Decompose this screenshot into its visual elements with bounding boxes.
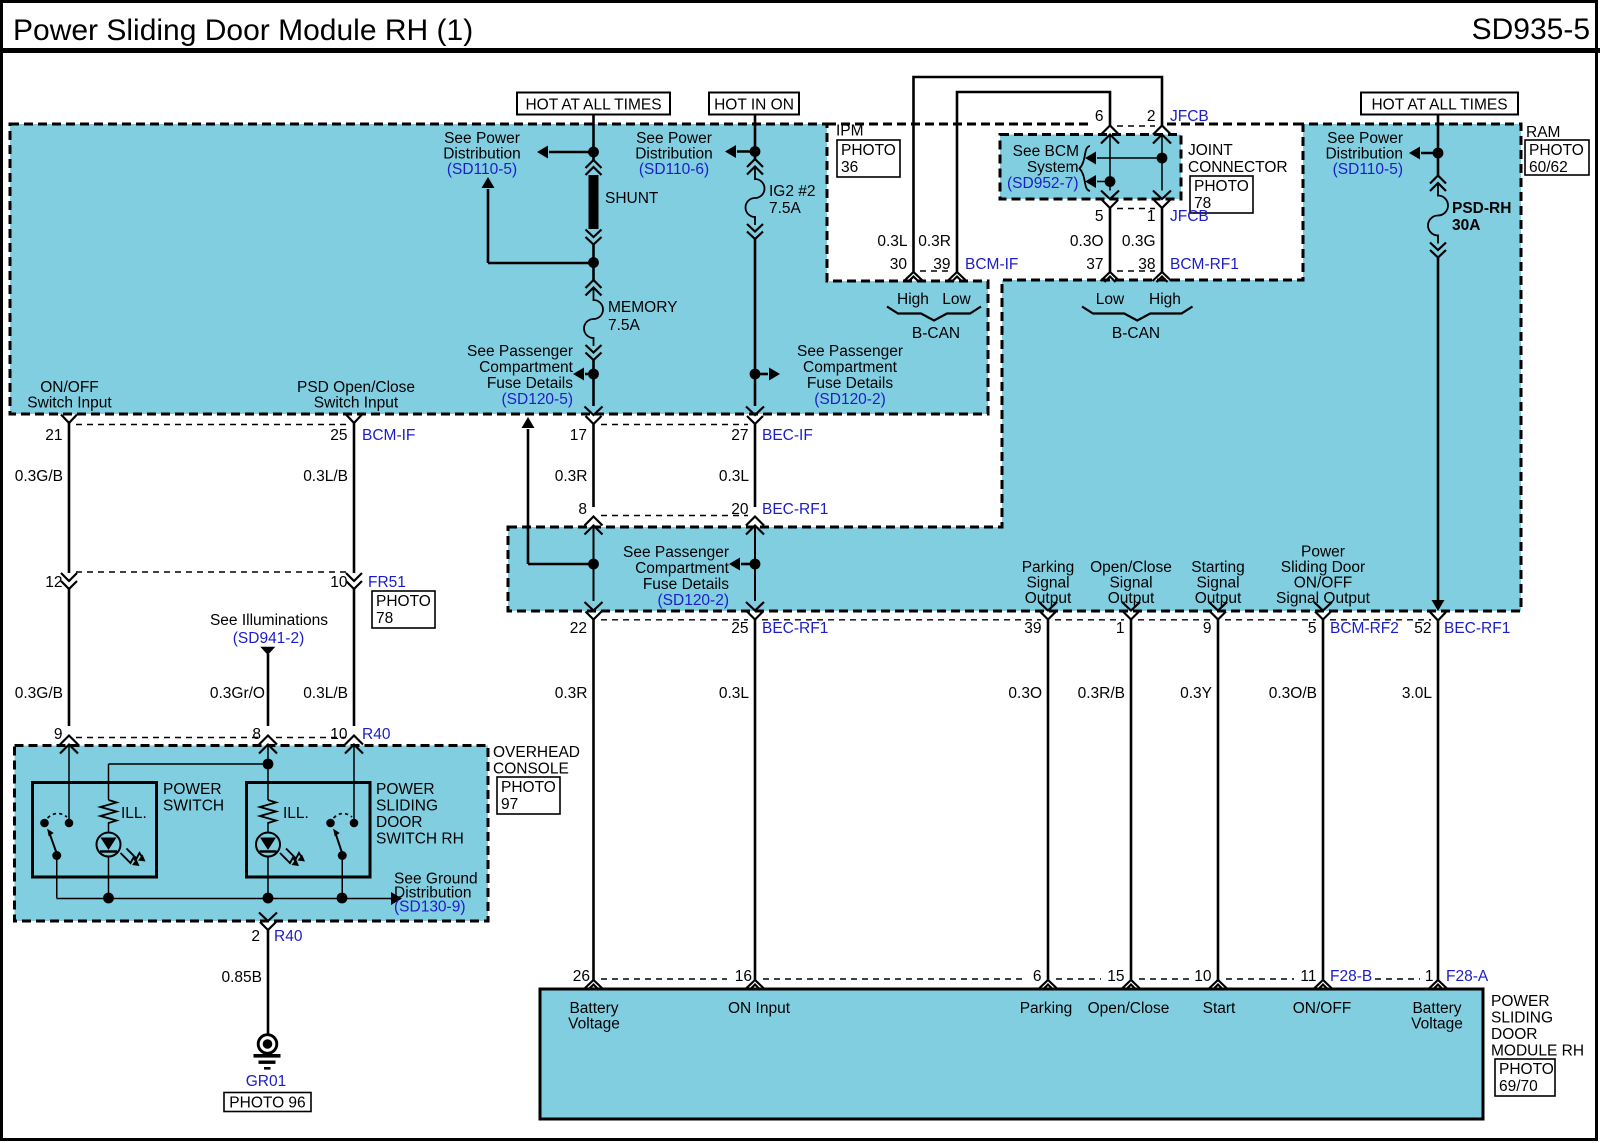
wire 0.3L pin25 to module pin16 [754,620,757,981]
illumination feed triangle [260,647,275,655]
svg-text:27: 27 [731,427,748,444]
node junction SD120-5 tap [588,369,599,380]
svg-text:52: 52 [1414,620,1431,637]
svg-text:37: 37 [1086,256,1103,273]
svg-text:Output: Output [1025,590,1072,607]
svg-text:CONNECTOR: CONNECTOR [1188,159,1288,176]
svg-text:See Passenger: See Passenger [797,343,903,360]
svg-text:15: 15 [1107,968,1124,985]
svg-text:69/70: 69/70 [1499,1078,1538,1095]
wire ignition feed HOT IN ON [754,115,757,160]
shunt element [586,160,602,168]
svg-text:0.3L: 0.3L [719,468,750,485]
svg-text:CONSOLE: CONSOLE [493,761,569,778]
wire pin 1 to module pin 15 [1130,620,1133,981]
node junction JC lower [1105,176,1116,187]
svg-text:8: 8 [252,726,261,743]
pin 20 BEC-RF1 [746,517,764,526]
overhead console box [15,746,489,922]
svg-text:Signal: Signal [1196,575,1239,592]
pin 26 module battery voltage [584,980,603,989]
fuse IG2 #2 7.5A [747,159,763,167]
svg-text:(SD120-2): (SD120-2) [814,391,886,408]
connector dashed line BEC-IF row [601,424,748,426]
brace see BCM system [1080,146,1091,191]
svg-text:78: 78 [376,610,393,627]
connector dashed line BEC-RF1 row upper [601,515,748,517]
pin 39 signal output [1039,602,1057,611]
wire arrowhead into module edge [1432,600,1445,611]
svg-text:9: 9 [54,726,63,743]
pin 25 BEC-RF1 lower [746,602,764,611]
connector dashed line BEC-RF1 row lower [601,619,748,621]
svg-text:BCM-IF: BCM-IF [965,256,1018,273]
svg-text:BEC-RF1: BEC-RF1 [1444,620,1510,637]
svg-text:39: 39 [1024,620,1041,637]
wire 0.3R pin17 to pin8 [592,424,595,507]
svg-text:SLIDING: SLIDING [376,798,438,815]
svg-text:Low: Low [1096,291,1125,308]
svg-text:B-CAN: B-CAN [912,325,960,342]
svg-text:1: 1 [1116,620,1125,637]
wire arrow pointing up to SD110-5 text [482,177,495,188]
svg-text:0.3Y: 0.3Y [1180,685,1212,702]
photo box IPM PHOTO 36 [837,140,900,177]
svg-text:12: 12 [45,574,62,591]
svg-text:OVERHEAD: OVERHEAD [493,744,580,761]
IPM region top dashed border [827,123,1093,126]
svg-text:High: High [1149,291,1181,308]
svg-text:26: 26 [573,968,590,985]
svg-text:1: 1 [1147,208,1156,225]
LED left illumination lamp [97,833,121,857]
svg-text:9: 9 [1203,620,1212,637]
node BEC/RAM block (right dashed cyan region) [508,124,1521,611]
ground GR01 symbol [258,1035,277,1054]
svg-text:See Power: See Power [1327,130,1403,147]
svg-text:See Power: See Power [444,130,520,147]
connector dashed line JFCB top [1117,125,1155,127]
svg-text:POWER: POWER [163,781,222,798]
svg-text:BEC-IF: BEC-IF [762,427,813,444]
photo box PHOTO 97 [497,777,560,814]
svg-text:Signal Output: Signal Output [1276,590,1371,607]
svg-text:See Power: See Power [636,130,712,147]
wire arrow left to band fuse details text [741,563,755,566]
pin 2 JFCB [1153,126,1171,135]
connector dashed line FR51 row [76,571,347,573]
svg-text:Battery: Battery [569,1000,618,1017]
svg-text:Start: Start [1203,1000,1236,1017]
svg-text:ON Input: ON Input [728,1000,791,1017]
svg-text:ILL.: ILL. [283,805,309,822]
wire 0.3G pin1 to pin38 [1161,208,1164,272]
svg-text:Distribution: Distribution [635,146,713,163]
svg-text:Compartment: Compartment [803,359,898,376]
wire 0.3L/B pin10 to pin10b [353,589,356,726]
wire resistor to LED left [108,822,110,833]
svg-text:Power Sliding Door Module RH (: Power Sliding Door Module RH (1) [13,14,473,47]
svg-text:Voltage: Voltage [568,1016,620,1033]
svg-text:Parking: Parking [1022,559,1075,576]
svg-text:0.3L/B: 0.3L/B [303,685,348,702]
svg-text:3.0L: 3.0L [1402,685,1433,702]
svg-text:PHOTO: PHOTO [1499,1061,1554,1078]
svg-text:PHOTO: PHOTO [841,142,896,159]
svg-text:SWITCH RH: SWITCH RH [376,831,464,848]
svg-text:0.3L: 0.3L [719,685,750,702]
wire 0.3R pin22 to module pin26 [592,620,595,981]
svg-text:Signal: Signal [1026,575,1069,592]
pin 21 BCM-IF switch input [61,415,77,424]
svg-text:10: 10 [330,574,348,591]
switch S2 power sliding door switch [326,819,335,828]
svg-text:JFCB: JFCB [1170,208,1209,225]
svg-text:BCM-IF: BCM-IF [362,427,415,444]
wire battery feed RAM [1437,115,1440,176]
node BCM block (top-left dashed cyan region) [10,124,988,414]
svg-text:Starting: Starting [1191,559,1244,576]
svg-text:8: 8 [578,501,587,518]
svg-text:R40: R40 [362,726,391,743]
svg-text:(SD952-7): (SD952-7) [1007,175,1079,192]
svg-text:25: 25 [731,620,748,637]
svg-text:High: High [897,291,929,308]
svg-text:Output: Output [1195,590,1242,607]
svg-text:PSD-RH: PSD-RH [1452,200,1511,217]
svg-text:Compartment: Compartment [479,359,574,376]
svg-text:PHOTO: PHOTO [1529,142,1584,159]
wire joint connector pin6 internal [1109,135,1111,191]
wire resistor to LED right [267,822,269,833]
connector dashed line BCM-RF1 pins 37 38 [1117,270,1155,272]
svg-text:30: 30 [890,256,908,273]
svg-text:Battery: Battery [1412,1000,1461,1017]
svg-text:System: System [1027,159,1079,176]
wire into band column B [754,526,756,602]
svg-text:F28-B: F28-B [1330,968,1372,985]
svg-text:IG2 #2: IG2 #2 [769,183,816,200]
pin 10 R40 [345,736,363,745]
resistor left ILL [101,800,117,823]
svg-text:HOT AT ALL TIMES: HOT AT ALL TIMES [525,97,661,114]
wire 0.85B to ground [267,930,270,1035]
svg-text:ILL.: ILL. [121,805,147,822]
svg-text:7.5A: 7.5A [769,200,802,217]
wire memory fuse to pin 17 [592,360,595,406]
wire see ground distribution arrow [391,892,402,905]
svg-text:7.5A: 7.5A [608,317,641,334]
svg-text:B-CAN: B-CAN [1112,325,1160,342]
svg-text:0.3G/B: 0.3G/B [15,468,63,485]
connector dashed line R40 row [76,737,260,739]
svg-text:See Passenger: See Passenger [623,544,729,561]
wire pin 9 to module pin 10 [1217,620,1220,981]
wire 0.3L/B pin25 to pin10 [353,423,356,573]
pin 2 R40 ground output [259,913,277,922]
wire pin 39 to module pin 6 [1047,620,1050,981]
svg-text:See BCM: See BCM [1013,143,1079,160]
wire 0.3G/B pin12 to pin9 [68,589,71,726]
svg-text:BEC-RF1: BEC-RF1 [762,620,828,637]
svg-text:5: 5 [1308,620,1317,637]
svg-text:Signal: Signal [1109,575,1152,592]
wire battery feed into SHUNT [592,115,595,161]
svg-text:0.3G/B: 0.3G/B [15,685,63,702]
svg-text:Fuse Details: Fuse Details [643,576,729,593]
svg-text:(SD110-5): (SD110-5) [1333,161,1403,178]
svg-text:POWER: POWER [1491,993,1550,1010]
svg-text:38: 38 [1138,256,1155,273]
svg-text:RAM: RAM [1526,124,1560,141]
pin 8 BEC-RF1 [585,517,603,526]
svg-text:PHOTO: PHOTO [376,593,431,610]
pin 38 BCM-RF1 [1153,272,1172,281]
node junction band left [588,559,599,570]
fuse PSD-RH 30A [1430,176,1446,184]
pin 10 module [1209,980,1228,989]
pin 1 JFCB [1153,191,1171,200]
svg-text:0.3O: 0.3O [1070,233,1104,250]
svg-text:Fuse Details: Fuse Details [807,375,893,392]
connector dashed line BCM-IF pins 30 39 [920,270,951,272]
svg-text:SHUNT: SHUNT [605,190,659,207]
wire arrow to See Power Distribution right [1421,152,1438,155]
wire to See Power Distribution SD110-6 arrow [737,150,755,153]
svg-text:11: 11 [1300,968,1316,985]
svg-text:Output: Output [1108,590,1155,607]
node junction SD120-2 tap [750,369,761,380]
wire arrow JC lower to brace [1097,181,1110,183]
pin 37 BCM-RF1 [1101,272,1120,281]
HOT IN ON box [709,93,799,115]
wire 0.3G/B pin21 to pin12 [68,423,71,573]
pin 1 module battery voltage [1429,980,1448,989]
svg-text:Voltage: Voltage [1411,1016,1463,1033]
pin 52 BEC-RF1 [1430,612,1446,621]
wire pin 5 to module pin 11 [1322,620,1325,981]
svg-text:17: 17 [570,427,587,444]
wire arrow to See Passenger Compartment SD120-2 right [755,373,768,376]
svg-text:(SD120-2): (SD120-2) [658,592,730,609]
pin 39 BCM-IF [948,272,967,281]
pin 11 module [1314,980,1333,989]
wire pin9 to switch S1 [68,745,70,820]
photo box FR51 PHOTO 78 [372,591,435,628]
power switch sub-box [33,783,157,878]
joint connector U1 box [1000,135,1181,200]
pin 27 BEC-IF [746,407,764,416]
svg-text:0.3R: 0.3R [555,468,588,485]
svg-text:See Illuminations: See Illuminations [210,612,328,629]
svg-text:BCM-RF2: BCM-RF2 [1330,620,1399,637]
svg-text:36: 36 [841,159,858,176]
resistor right ILL [260,800,276,823]
wire 0.3Gr/O illumination to pin 8 [267,654,270,726]
svg-text:(SD130-9): (SD130-9) [394,899,466,916]
pin 5 JFCB [1101,191,1119,200]
svg-text:(SD120-5): (SD120-5) [502,391,574,408]
wire PSD-RH fuse to pin 52 [1437,258,1440,601]
pin 9 signal output [1209,602,1227,611]
svg-text:SD935-5: SD935-5 [1472,13,1590,46]
svg-text:Parking: Parking [1020,1000,1073,1017]
svg-text:BCM-RF1: BCM-RF1 [1170,256,1239,273]
svg-text:BEC-RF1: BEC-RF1 [762,501,828,518]
svg-text:Low: Low [942,291,971,308]
pin 30 BCM-IF [904,272,923,281]
svg-text:(SD110-5): (SD110-5) [447,161,517,178]
wire pin8 junction to lamps [267,745,269,801]
svg-text:97: 97 [501,796,518,813]
wire to left illumination lamp [109,763,269,765]
svg-text:Switch Input: Switch Input [314,395,399,412]
svg-text:PHOTO 96: PHOTO 96 [229,1095,305,1112]
svg-text:ON/OFF: ON/OFF [1293,1000,1352,1017]
svg-text:SLIDING: SLIDING [1491,1010,1553,1027]
wire shunt to memory fuse [592,244,595,280]
svg-text:Open/Close: Open/Close [1088,1000,1170,1017]
svg-text:22: 22 [570,620,587,637]
svg-text:MEMORY: MEMORY [608,299,677,316]
svg-text:21: 21 [45,427,62,444]
svg-text:0.3L: 0.3L [877,233,908,250]
svg-text:30A: 30A [1452,217,1480,234]
svg-text:(SD941-2): (SD941-2) [233,630,305,647]
svg-text:ON/OFF: ON/OFF [1294,575,1353,592]
connector pin 12 FR51 [61,573,77,581]
connector dashed line BCM-IF row [76,424,347,426]
svg-text:GR01: GR01 [246,1073,287,1090]
LED right illumination lamp [256,833,280,857]
svg-text:IPM: IPM [836,123,864,140]
svg-text:Open/Close: Open/Close [1090,559,1172,576]
ground rail wire [57,898,393,900]
svg-text:1: 1 [1425,968,1434,985]
photo box JOINT CONNECTOR PHOTO 78 [1190,176,1253,213]
wire 0.3O pin5 to pin37 [1109,208,1112,272]
pin 25 BCM-IF [346,415,362,424]
svg-text:Power: Power [1301,544,1345,561]
svg-text:39: 39 [933,256,950,273]
svg-text:25: 25 [330,427,347,444]
node junction SD110-5 tap [588,147,599,158]
connector dashed line JFCB bottom [1117,208,1155,210]
svg-text:0.3O: 0.3O [1008,685,1042,702]
photo box PHOTO 96 [224,1093,311,1112]
pin 5 signal output [1314,602,1332,611]
svg-text:0.3R: 0.3R [918,233,951,250]
pin 9 R40 [60,736,78,745]
svg-text:HOT AT ALL TIMES: HOT AT ALL TIMES [1371,97,1507,114]
wire arrow to See Passenger Compartment SD120-5 [585,373,594,376]
wire pin10 to switch S2 [353,745,355,820]
brace B-CAN left [887,307,981,321]
svg-text:6: 6 [1033,968,1042,985]
wire B-CAN bus lower crossover [957,92,1110,272]
svg-text:Distribution: Distribution [1325,146,1403,163]
svg-text:Distribution: Distribution [443,146,521,163]
svg-text:6: 6 [1095,108,1104,125]
svg-text:60/62: 60/62 [1529,159,1568,176]
svg-text:Switch Input: Switch Input [27,395,112,412]
pin 22 BEC-RF1 [585,602,603,611]
svg-text:Sliding Door: Sliding Door [1281,559,1365,576]
svg-text:POWER: POWER [376,781,435,798]
svg-text:0.3R/B: 0.3R/B [1078,685,1125,702]
HOT AT ALL TIMES box right [1361,93,1518,115]
svg-text:10: 10 [1194,968,1212,985]
connector dashed line module row [601,978,727,980]
svg-text:Compartment: Compartment [635,560,730,577]
pin 6 module [1039,980,1058,989]
power sliding door switch sub-box [247,783,371,878]
switch S1 power switch [40,819,49,828]
wire joint connector pin2 internal [1161,135,1163,191]
svg-text:SWITCH: SWITCH [163,798,224,815]
node junction below shunt [588,257,599,268]
svg-text:0.3O/B: 0.3O/B [1269,685,1317,702]
svg-text:0.3G: 0.3G [1122,233,1156,250]
node junction JC upper [1157,153,1168,164]
svg-text:PSD Open/Close: PSD Open/Close [297,379,415,396]
node junction SD110-5 right tap [1433,148,1444,159]
wire 3.0L pin52 to module pin1 [1437,621,1440,981]
svg-text:R40: R40 [274,928,303,945]
svg-text:10: 10 [330,726,348,743]
svg-text:F28-A: F28-A [1446,968,1489,985]
svg-text:ON/OFF: ON/OFF [40,379,99,396]
svg-text:2: 2 [1147,108,1156,125]
svg-text:MODULE RH: MODULE RH [1491,1043,1584,1060]
svg-text:DOOR: DOOR [376,814,423,831]
wire IG2 fuse to pin 27 [754,239,757,406]
pin 16 module ON input [746,980,765,989]
svg-text:Fuse Details: Fuse Details [487,375,573,392]
svg-text:2: 2 [251,928,260,945]
wire to See Power Distribution SD110-5 arrow [549,151,594,154]
photo box PHOTO 69/70 [1495,1059,1555,1096]
wire B-CAN bus upper crossover [914,77,1163,272]
connector pin 10 FR51 [346,573,362,581]
svg-text:0.3Gr/O: 0.3Gr/O [210,685,265,702]
wire arrow JC upper to brace [1097,157,1162,159]
svg-text:16: 16 [735,968,752,985]
HOT AT ALL TIMES box left [517,93,670,115]
pin 15 module [1122,980,1141,989]
wire into fuse-details band [593,526,595,602]
title divider line [0,48,1600,53]
wire arrow up to SD120-5 band link [528,563,594,566]
svg-text:0.3L/B: 0.3L/B [303,468,348,485]
svg-text:PHOTO: PHOTO [501,779,556,796]
svg-text:JOINT: JOINT [1188,142,1233,159]
svg-text:5: 5 [1095,208,1104,225]
svg-text:PHOTO: PHOTO [1194,178,1249,195]
fuse MEMORY 7.5A [586,280,602,288]
photo box RAM PHOTO 60/62 [1525,140,1589,175]
svg-text:(SD110-6): (SD110-6) [639,161,709,178]
brace B-CAN right [1082,307,1193,321]
pin 1 signal output [1122,602,1140,611]
svg-text:DOOR: DOOR [1491,1026,1538,1043]
svg-text:0.85B: 0.85B [221,969,262,986]
pin 17 BEC-IF [585,407,603,416]
svg-text:FR51: FR51 [368,574,406,591]
svg-text:JFCB: JFCB [1170,108,1209,125]
wire 0.3L pin27 to pin20 [754,424,757,507]
node junction band right [750,559,761,570]
